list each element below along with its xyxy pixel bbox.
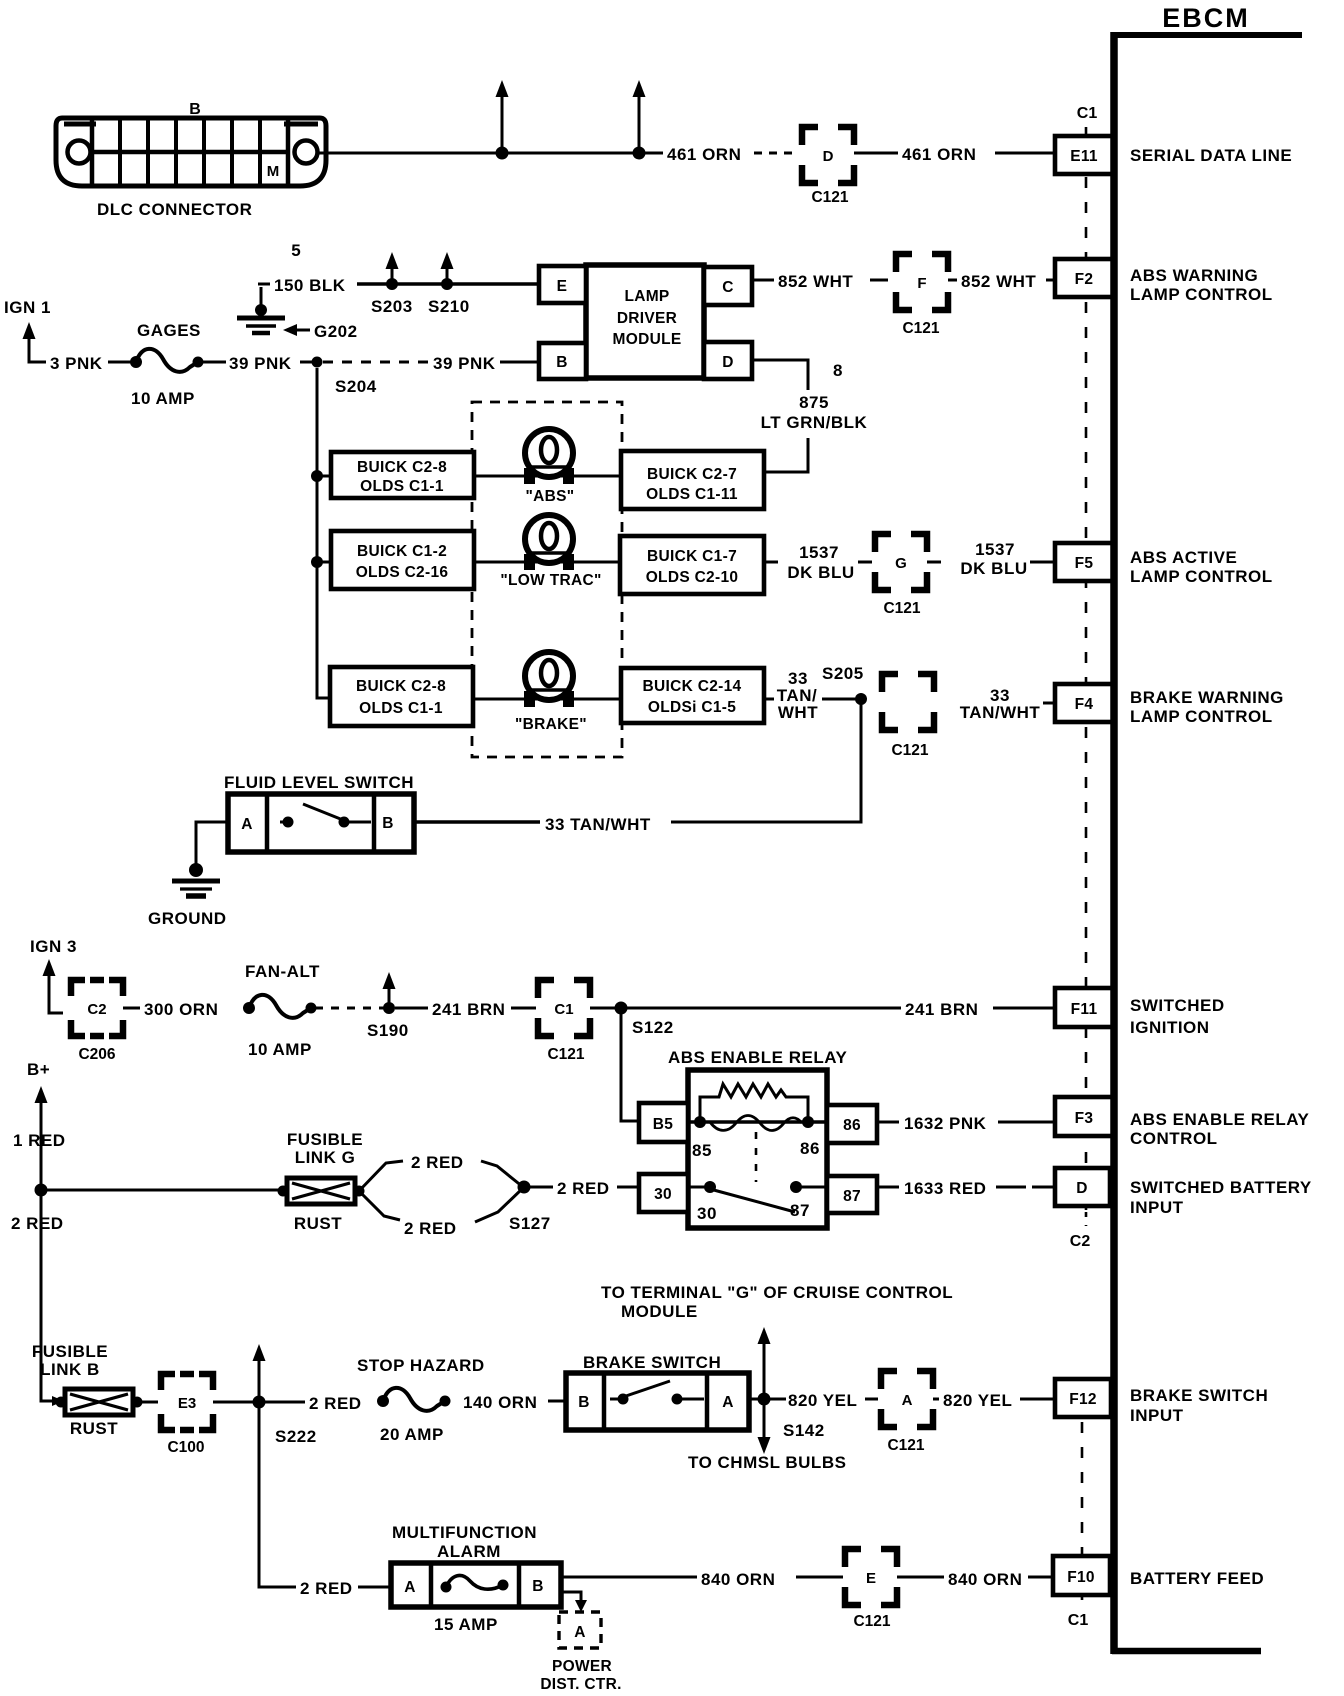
svg-text:B: B [556, 354, 568, 371]
svg-text:OLDS C1-1: OLDS C1-1 [359, 700, 443, 717]
svg-text:3 PNK: 3 PNK [50, 354, 103, 373]
wire row2 box to 1537 label [764, 561, 778, 564]
wire 30 terminal stub [688, 1186, 710, 1189]
lamp "ABS" [524, 429, 574, 505]
svg-text:85: 85 [692, 1141, 712, 1160]
svg-text:1537: 1537 [975, 540, 1015, 559]
svg-text:FAN-ALT: FAN-ALT [245, 962, 320, 981]
wire dashes before C121 D [754, 152, 795, 155]
svg-text:461 ORN: 461 ORN [667, 145, 741, 164]
wire row3 box to S205 [764, 698, 861, 701]
svg-text:BUICK C1-2: BUICK C1-2 [357, 543, 447, 560]
fusible link B [56, 1389, 143, 1415]
connector C121 cavity D [802, 127, 854, 206]
net label ABS ACTIVE LAMP CONTROL [1130, 548, 1273, 586]
node B+ [27, 1060, 50, 1079]
connector C100 cavity E3 [161, 1374, 213, 1456]
switch Brake Switch [566, 1373, 749, 1430]
POWER DIST. CTR. label [540, 1658, 621, 1693]
svg-text:OLDS C2-10: OLDS C2-10 [646, 569, 739, 586]
wire to terminal F5 [1030, 561, 1057, 564]
ground ref arrow G202 [283, 322, 358, 341]
wire S222 to 2 RED [259, 1401, 305, 1404]
wire C121 to S122 [590, 1007, 620, 1010]
wire row1 through lamp ABS [474, 475, 621, 478]
svg-text:S222: S222 [275, 1427, 317, 1446]
wire to terminal F10 [1028, 1576, 1055, 1579]
svg-text:461 ORN: 461 ORN [902, 145, 976, 164]
svg-text:875: 875 [799, 393, 829, 412]
svg-text:30: 30 [697, 1204, 717, 1223]
net label BRAKE SWITCH INPUT [1130, 1386, 1268, 1425]
svg-text:B: B [382, 815, 394, 832]
svg-text:20 AMP: 20 AMP [380, 1425, 444, 1444]
svg-text:C121: C121 [887, 1437, 924, 1454]
relay switch blade [710, 1189, 795, 1212]
svg-text:IGN 3: IGN 3 [30, 937, 77, 956]
TO TERMINAL G OF CRUISE CONTROL MODULE label [601, 1283, 953, 1321]
wire label 39 PNK (right) [433, 354, 496, 373]
svg-text:F: F [917, 275, 926, 292]
connector C2 label (below D) [1070, 1212, 1091, 1250]
svg-text:G: G [895, 555, 907, 572]
svg-text:86: 86 [843, 1117, 861, 1134]
svg-text:LAMP CONTROL: LAMP CONTROL [1130, 567, 1273, 586]
BRAKE SWITCH label [583, 1353, 721, 1372]
wire FLS B to label [414, 820, 540, 824]
wire dash to brake switch [548, 1400, 564, 1403]
svg-text:S203: S203 [371, 297, 413, 316]
svg-text:LAMP CONTROL: LAMP CONTROL [1130, 707, 1273, 726]
svg-text:10 AMP: 10 AMP [131, 389, 195, 408]
junction S190 dot with up arrow [367, 972, 409, 1040]
svg-text:150 BLK: 150 BLK [274, 276, 346, 295]
wire S222 down to multifunction alarm [259, 1402, 296, 1587]
lamp "BRAKE" [515, 652, 587, 733]
svg-text:OLDSi C1-5: OLDSi C1-5 [648, 699, 736, 716]
svg-text:30: 30 [654, 1186, 672, 1203]
wire B+ column down to fusible link B [41, 1190, 64, 1406]
terminal F12 [1055, 1379, 1111, 1417]
net label SERIAL DATA LINE [1130, 146, 1292, 165]
wire label 1632 PNK [904, 1114, 987, 1133]
svg-text:C121: C121 [902, 320, 939, 337]
terminal 87 of relay [827, 1176, 877, 1213]
svg-text:S142: S142 [783, 1421, 825, 1440]
wire D down to lamp box [752, 360, 808, 472]
wire label 875 LT GRN/BLK [761, 393, 868, 432]
svg-text:POWER: POWER [552, 1658, 612, 1675]
svg-text:MODULE: MODULE [613, 331, 682, 348]
connector C121 cavity G [875, 534, 927, 617]
wire to terminal B of LDM [500, 361, 539, 364]
wire C121 G dash [927, 561, 941, 564]
svg-text:LAMP CONTROL: LAMP CONTROL [1130, 285, 1273, 304]
wire label 820 YEL (left) [788, 1391, 857, 1410]
wire 86 to 1632 PNK [877, 1121, 899, 1124]
connector C121 cavity A [881, 1371, 933, 1454]
junction S203 dot with up arrow [371, 252, 413, 316]
junction S122 [615, 1002, 674, 1038]
wire C121 F to 852 WHT [948, 279, 957, 282]
svg-text:S190: S190 [367, 1021, 409, 1040]
svg-text:2 RED: 2 RED [404, 1219, 457, 1238]
wire FLS A to ground [196, 822, 228, 864]
svg-text:ABS ACTIVE: ABS ACTIVE [1130, 548, 1237, 567]
FLUID LEVEL SWITCH label [224, 773, 414, 792]
junction S204 [300, 357, 377, 397]
instrument cluster dashed box [472, 402, 622, 757]
connector C121 cavity F [896, 254, 948, 337]
svg-text:852 WHT: 852 WHT [961, 272, 1036, 291]
svg-text:140 ORN: 140 ORN [463, 1393, 537, 1412]
wire row3 through lamp BRAKE [473, 698, 621, 701]
svg-text:BUICK C2-7: BUICK C2-7 [647, 466, 737, 483]
terminal F2 [1055, 259, 1113, 297]
svg-text:F12: F12 [1069, 1391, 1097, 1408]
svg-text:B+: B+ [27, 1060, 50, 1079]
wire junction to fusible link G [41, 1189, 280, 1192]
svg-text:DLC CONNECTOR: DLC CONNECTOR [97, 200, 252, 219]
node 5 (ground ref) [291, 241, 300, 260]
svg-text:CONTROL: CONTROL [1130, 1129, 1218, 1148]
svg-text:D: D [823, 148, 834, 165]
wire to terminal F12 [1020, 1398, 1057, 1401]
terminal B of LDM [539, 343, 586, 379]
svg-text:C2: C2 [87, 1001, 106, 1018]
svg-text:BUICK C2-8: BUICK C2-8 [356, 678, 446, 695]
svg-text:86: 86 [800, 1139, 820, 1158]
wire to terminal F2 [1046, 279, 1057, 282]
svg-text:OLDS C2-16: OLDS C2-16 [356, 564, 449, 581]
svg-text:INPUT: INPUT [1130, 1406, 1184, 1425]
svg-text:DRIVER: DRIVER [617, 310, 677, 327]
svg-text:EBCM: EBCM [1162, 3, 1250, 33]
connector box BUICK C2-7 / OLDS C1-11 (row1 right) [621, 451, 764, 509]
svg-text:C1: C1 [554, 1001, 573, 1018]
net label ABS WARNING LAMP CONTROL [1130, 266, 1273, 304]
relay coil sag wave [710, 1116, 802, 1131]
svg-text:852 WHT: 852 WHT [778, 272, 853, 291]
wire label 300 ORN [144, 1000, 218, 1019]
svg-text:"LOW TRAC": "LOW TRAC" [500, 572, 601, 589]
wire dashed S204 to 39 PNK [323, 361, 430, 364]
terminal 86 of relay [827, 1105, 877, 1143]
svg-text:C121: C121 [891, 742, 928, 759]
svg-text:BUICK C2-8: BUICK C2-8 [357, 459, 447, 476]
svg-text:S122: S122 [632, 1018, 674, 1037]
svg-text:TO TERMINAL "G" OF CRUISE CONT: TO TERMINAL "G" OF CRUISE CONTROL [601, 1283, 953, 1302]
terminal F11 [1055, 988, 1113, 1027]
FUSIBLE LINK G label [287, 1130, 363, 1167]
svg-text:87: 87 [843, 1188, 861, 1205]
svg-text:820 YEL: 820 YEL [788, 1391, 857, 1410]
junction S142 dot with up and down arrows [758, 1327, 825, 1454]
svg-text:LAMP: LAMP [624, 288, 669, 305]
junction S222 dot with up arrow [253, 1344, 317, 1446]
svg-text:1537: 1537 [799, 543, 839, 562]
FUSIBLE LINK B label [32, 1342, 108, 1379]
svg-text:WHT: WHT [778, 703, 818, 722]
wire dash to C121 A [865, 1398, 878, 1401]
wire label 461 ORN (right) [902, 145, 976, 164]
wire dashed C1 harness line upper [1085, 127, 1088, 1210]
op module Lamp Driver Module [586, 265, 704, 378]
fuse STOP HAZARD 20 AMP [357, 1356, 485, 1444]
wire label 2 RED (below junction) [11, 1214, 64, 1233]
svg-text:C100: C100 [167, 1439, 204, 1456]
svg-text:TO CHMSL BULBS: TO CHMSL BULBS [688, 1453, 846, 1472]
svg-text:39 PNK: 39 PNK [229, 354, 292, 373]
wire S190 to 241 BRN [395, 1007, 428, 1010]
svg-text:RUST: RUST [294, 1214, 342, 1233]
RUST label (link G) [294, 1214, 342, 1233]
svg-text:ABS ENABLE RELAY: ABS ENABLE RELAY [668, 1048, 847, 1067]
wire to terminal F3 [998, 1121, 1057, 1124]
svg-text:"BRAKE": "BRAKE" [515, 716, 587, 733]
svg-text:M: M [267, 163, 280, 180]
connector C121 (brake warning, empty cavity) [882, 674, 934, 759]
svg-text:15 AMP: 15 AMP [434, 1615, 498, 1634]
wire dashed fuse to S190 [315, 1007, 385, 1010]
wire dash to C121 F [870, 279, 888, 282]
svg-text:C121: C121 [811, 189, 848, 206]
wire label 33 TAN/WHT (stacked) [774, 669, 822, 722]
svg-text:10 AMP: 10 AMP [248, 1040, 312, 1059]
svg-text:A: A [404, 1579, 416, 1596]
svg-text:TAN/WHT: TAN/WHT [960, 703, 1041, 722]
svg-text:C121: C121 [883, 600, 920, 617]
terminal D [1055, 1168, 1110, 1206]
relay dashed link [755, 1132, 758, 1182]
svg-text:MULTIFUNCTION: MULTIFUNCTION [392, 1523, 537, 1542]
wire split upper branch 2 RED [359, 1153, 523, 1191]
wire link B to C100 [137, 1401, 158, 1404]
terminal F4 [1055, 684, 1113, 722]
wire label 33 TAN/WHT (right of C121) [960, 686, 1041, 722]
wire label 3 PNK [50, 354, 103, 373]
wire label 840 ORN (left) [698, 1566, 793, 1589]
svg-text:E3: E3 [178, 1395, 196, 1412]
svg-text:33 TAN/WHT: 33 TAN/WHT [545, 815, 651, 834]
svg-text:F5: F5 [1075, 555, 1094, 572]
GROUND label [148, 909, 227, 928]
wire label 241 BRN (right) [901, 996, 993, 1019]
wire alarm B to 840 ORN [561, 1576, 697, 1579]
terminal E of LDM [539, 266, 586, 303]
net label BATTERY FEED [1130, 1569, 1264, 1588]
connector box BUICK C2-14 / OLDSi C1-5 (row3 right) [621, 668, 764, 723]
node IGN 1 [4, 298, 51, 317]
svg-text:B: B [189, 101, 201, 118]
svg-text:BUICK C2-14: BUICK C2-14 [643, 678, 742, 695]
svg-text:2 RED: 2 RED [11, 1214, 64, 1233]
svg-text:S204: S204 [335, 377, 377, 396]
wire label 33 TAN/WHT (FLS to S205) [545, 815, 651, 834]
svg-text:ALARM: ALARM [437, 1542, 501, 1561]
node IGN 3 [30, 937, 77, 956]
svg-text:8: 8 [833, 361, 843, 380]
net label SWITCHED BATTERY INPUT [1130, 1178, 1312, 1217]
wire S122 down to relay B5 [621, 1008, 639, 1121]
connector Power Dist Ctr cavity A (dashed box) [559, 1612, 601, 1648]
svg-text:BRAKE WARNING: BRAKE WARNING [1130, 688, 1284, 707]
terminal D of LDM [704, 342, 752, 379]
ground (fluid level switch) [172, 863, 220, 896]
svg-text:2 RED: 2 RED [309, 1394, 362, 1413]
junction S127 [509, 1181, 551, 1234]
svg-text:39 PNK: 39 PNK [433, 354, 496, 373]
EBCM module outline [1112, 32, 1302, 1654]
svg-text:ABS ENABLE RELAY: ABS ENABLE RELAY [1130, 1110, 1309, 1129]
svg-text:S127: S127 [509, 1214, 551, 1233]
svg-text:RUST: RUST [70, 1419, 118, 1438]
junction dot with up arrow (serial, right) [633, 80, 646, 160]
node 8 label [833, 361, 843, 380]
svg-text:IGNITION: IGNITION [1130, 1018, 1210, 1037]
connector box BUICK C2-8 / OLDS C1-1 (row1 left) [331, 452, 474, 498]
wire IGN3 arrow [43, 959, 64, 1013]
wire alarm B to power dist ctr [563, 1592, 587, 1612]
svg-text:FLUID LEVEL SWITCH: FLUID LEVEL SWITCH [224, 773, 414, 792]
wire label 852 WHT (right) [961, 272, 1036, 291]
fuse FAN-ALT 10 AMP [243, 962, 320, 1059]
wire row2 through lamp LOW TRAC [474, 561, 621, 564]
connector box BUICK C1-2 / OLDS C2-16 (row2 left) [331, 531, 474, 589]
wire label 241 BRN (left) [432, 1000, 505, 1019]
wire C121 D to label [854, 152, 898, 155]
terminal F3 [1055, 1097, 1113, 1136]
junction dot 85 [692, 1116, 712, 1160]
svg-text:A: A [902, 1392, 913, 1409]
svg-text:5: 5 [291, 241, 300, 260]
svg-text:A: A [574, 1624, 586, 1641]
svg-text:C2: C2 [1070, 1233, 1091, 1250]
connector box BUICK C1-7 / OLDS C2-10 (row2 right) [620, 536, 764, 594]
relay coil straight wire 85-86 [688, 1120, 827, 1124]
ABS ENABLE RELAY label [668, 1048, 847, 1067]
wire fuse to 39 PNK [202, 361, 226, 364]
connector C1 label (top) [1077, 105, 1098, 122]
wire to terminal E11 [995, 152, 1057, 155]
svg-text:E: E [557, 278, 568, 295]
wire S122 to terminal F11 (241 BRN) [621, 1007, 1057, 1010]
wire label 140 ORN [463, 1393, 537, 1412]
wire C121 E to 840 ORN [897, 1576, 944, 1579]
wire IGN1 arrow [23, 322, 47, 362]
wire to relay terminal 30 [617, 1186, 639, 1189]
junction S205 [822, 664, 867, 705]
fusible link G [278, 1178, 365, 1204]
wire S205 down to fluid level switch [671, 699, 861, 822]
TO CHMSL BULBS label [688, 1453, 846, 1472]
connector C121 cavity C1 [538, 980, 590, 1063]
wire S127 to 2 RED [524, 1186, 553, 1189]
svg-text:C121: C121 [853, 1613, 890, 1630]
wire DLC to 461 ORN [318, 152, 663, 155]
connector box BUICK C2-8 / OLDS C1-1 (row3 left) [330, 667, 473, 726]
svg-text:E: E [866, 1570, 876, 1587]
svg-text:F3: F3 [1075, 1110, 1094, 1127]
wire to terminal D [996, 1186, 1057, 1189]
svg-text:"ABS": "ABS" [526, 488, 575, 505]
terminal F10 [1053, 1556, 1110, 1595]
svg-text:D: D [722, 354, 734, 371]
svg-text:SWITCHED BATTERY: SWITCHED BATTERY [1130, 1178, 1312, 1197]
junction dot B+ feed [35, 1184, 48, 1197]
svg-text:C206: C206 [78, 1046, 115, 1063]
relay switch contact 87 [790, 1181, 827, 1220]
svg-text:840 ORN: 840 ORN [948, 1570, 1022, 1589]
wire label 150 BLK [258, 276, 346, 295]
svg-text:D: D [1076, 1180, 1088, 1197]
svg-text:BUICK C1-7: BUICK C1-7 [647, 548, 737, 565]
svg-text:B: B [578, 1394, 590, 1411]
wire label 820 YEL (right) [943, 1391, 1012, 1410]
svg-text:241 BRN: 241 BRN [432, 1000, 505, 1019]
svg-text:820 YEL: 820 YEL [943, 1391, 1012, 1410]
wire 3 PNK to fuse [108, 361, 132, 364]
svg-text:1633 RED: 1633 RED [904, 1179, 986, 1198]
svg-text:S210: S210 [428, 297, 470, 316]
svg-text:DK BLU: DK BLU [787, 563, 854, 582]
svg-text:241 BRN: 241 BRN [905, 1000, 978, 1019]
terminal F5 [1055, 543, 1113, 581]
wire label 1 RED [13, 1131, 66, 1150]
svg-text:DK BLU: DK BLU [960, 559, 1027, 578]
junction dot row2 feed [311, 556, 331, 568]
connector C1 label (below F10) [1068, 1612, 1089, 1629]
junction dot with up arrow (serial, left) [496, 80, 509, 160]
svg-text:BRAKE SWITCH: BRAKE SWITCH [1130, 1386, 1268, 1405]
junction S210 dot with up arrow [428, 252, 470, 316]
svg-text:F11: F11 [1071, 1001, 1098, 1018]
ground G202 [237, 287, 285, 333]
svg-text:1632 PNK: 1632 PNK [904, 1114, 987, 1133]
svg-text:SWITCHED: SWITCHED [1130, 996, 1225, 1015]
svg-text:MODULE: MODULE [621, 1302, 698, 1321]
svg-text:1 RED: 1 RED [13, 1131, 66, 1150]
svg-text:840 ORN: 840 ORN [701, 1570, 775, 1589]
net label BRAKE WARNING LAMP CONTROL [1130, 688, 1284, 726]
svg-text:S205: S205 [822, 664, 864, 683]
svg-text:E11: E11 [1070, 148, 1098, 165]
wire dash to C121 G [858, 561, 872, 564]
svg-text:OLDS C1-1: OLDS C1-1 [360, 478, 444, 495]
wire label 2 RED (alarm) [300, 1579, 353, 1598]
svg-text:IGN 1: IGN 1 [4, 298, 51, 317]
RUST label (link B) [70, 1419, 118, 1438]
junction dot row1 feed [311, 470, 331, 482]
switch Fluid Level Switch [228, 794, 414, 852]
terminal B5 of relay [639, 1103, 688, 1142]
svg-text:B5: B5 [653, 1116, 673, 1133]
wire label 840 ORN (right) [948, 1570, 1022, 1589]
svg-text:C1: C1 [1077, 105, 1098, 122]
svg-text:300 ORN: 300 ORN [144, 1000, 218, 1019]
svg-text:A: A [722, 1394, 734, 1411]
svg-text:C1: C1 [1068, 1612, 1089, 1629]
wire label 39 PNK (left) [229, 354, 292, 373]
svg-text:BATTERY FEED: BATTERY FEED [1130, 1569, 1264, 1588]
svg-text:B: B [532, 1578, 544, 1595]
svg-text:F2: F2 [1075, 271, 1094, 288]
svg-text:INPUT: INPUT [1130, 1198, 1184, 1217]
svg-text:SERIAL DATA LINE: SERIAL DATA LINE [1130, 146, 1292, 165]
terminal 30 of relay [639, 1174, 688, 1212]
svg-text:A: A [241, 816, 253, 833]
relay switch contact 30 [697, 1181, 717, 1223]
